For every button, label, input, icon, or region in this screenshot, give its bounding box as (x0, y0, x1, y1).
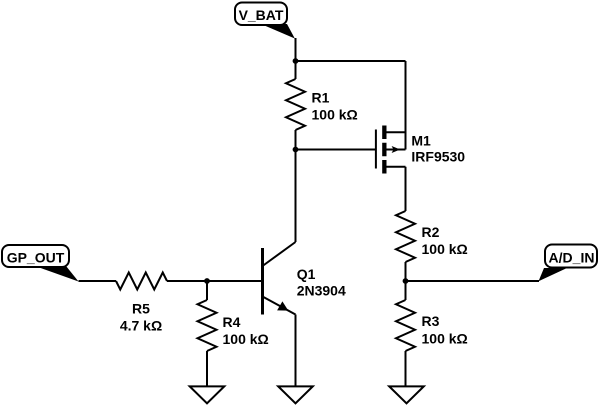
svg-text:R1: R1 (312, 90, 330, 106)
resistor R2 (396, 211, 415, 281)
wire M1 source down to R2 (405, 167, 407, 211)
ground R3 (389, 386, 424, 403)
label R3 100 k (422, 313, 468, 347)
label Q1 2N3904 (297, 266, 346, 299)
net label A/D_IN (539, 245, 598, 282)
resistor R5 (116, 273, 167, 290)
resistor R1 (286, 61, 305, 150)
label R5 4.7 k (120, 301, 162, 334)
junction base node (204, 278, 210, 284)
wire rail down to M1 drain (405, 61, 407, 150)
svg-text:4.7 kΩ: 4.7 kΩ (120, 318, 162, 334)
svg-text:R4: R4 (223, 314, 241, 330)
wire R5 to base node (167, 280, 207, 282)
wire GP_OUT to R5 (79, 280, 117, 282)
junction divider node (403, 278, 409, 284)
wire base node to Q1 base (207, 280, 263, 282)
wire gate node to M1 gate (296, 149, 376, 151)
label R1 100 k (312, 90, 358, 123)
junction gate node (293, 147, 299, 153)
svg-text:R5: R5 (132, 301, 150, 317)
net label GP_OUT (2, 245, 79, 282)
svg-text:100 kΩ: 100 kΩ (422, 331, 468, 347)
svg-text:GP_OUT: GP_OUT (7, 250, 65, 266)
resistor R4 (198, 281, 217, 386)
svg-text:M1: M1 (411, 133, 431, 149)
svg-text:A/D_IN: A/D_IN (549, 250, 595, 266)
ground Q1 emitter (278, 386, 313, 403)
svg-text:Q1: Q1 (297, 266, 316, 282)
svg-text:100 kΩ: 100 kΩ (422, 241, 468, 257)
wire divider node to A/D_IN (406, 280, 540, 282)
svg-text:100 kΩ: 100 kΩ (312, 107, 358, 123)
wire V_BAT tail to top rail (295, 38, 297, 61)
svg-text:R2: R2 (422, 224, 440, 240)
mosfet M1 (376, 126, 406, 174)
wire gate node down to Q1 collector (295, 150, 297, 243)
resistor R3 (396, 281, 415, 386)
ground R4 (190, 386, 225, 403)
svg-text:100 kΩ: 100 kΩ (223, 331, 269, 347)
transistor Q1 (263, 242, 296, 315)
label M1 IRF9530 (411, 133, 465, 165)
junction top rail (293, 58, 299, 64)
label R4 100 k (223, 314, 269, 347)
wire top rail (296, 60, 406, 62)
label R2 100 k (422, 224, 468, 257)
wire Q1 emitter down (295, 315, 297, 386)
svg-text:IRF9530: IRF9530 (411, 149, 465, 165)
net label V_BAT (235, 3, 295, 39)
svg-text:V_BAT: V_BAT (239, 7, 284, 23)
svg-text:2N3904: 2N3904 (297, 283, 346, 299)
svg-text:R3: R3 (422, 313, 440, 329)
